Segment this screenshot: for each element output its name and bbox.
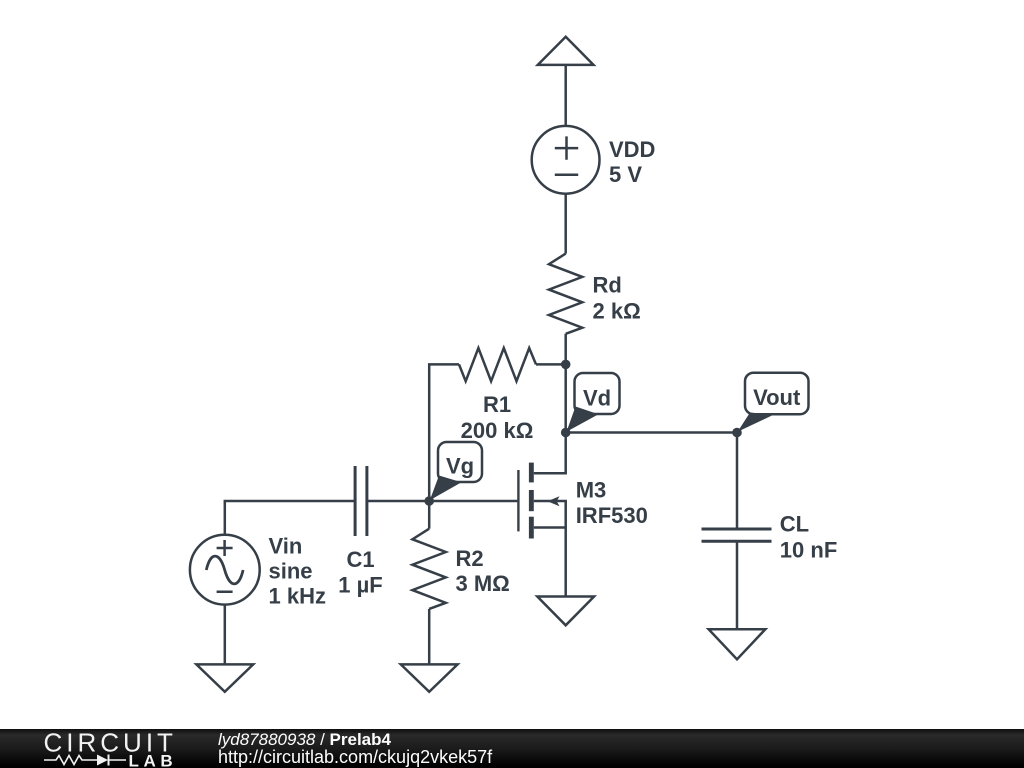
svg-text:Rd: Rd (593, 273, 622, 298)
MOSFET M3 body wire with source (534, 501, 566, 528)
svg-text:R2: R2 (456, 546, 484, 571)
footer url line (218, 748, 492, 766)
wire Vin top to C1 (225, 501, 355, 535)
logo resistor-diode squiggle (44, 755, 126, 766)
junction dot at node Vg (424, 496, 434, 506)
capacitor C1 left plate (354, 466, 357, 536)
resistor R2 zigzag (412, 529, 445, 609)
voltage source VDD circle (532, 126, 600, 194)
ground for M3 (537, 597, 594, 626)
node flag box Vout (745, 373, 809, 415)
wire VDD source to Rd (564, 194, 567, 254)
pointer of flag Vd (567, 407, 599, 432)
MOSFET M3 source channel bar (529, 517, 534, 539)
node flag box Vg (438, 442, 482, 482)
voltage source Vin circle (190, 535, 260, 605)
MOSFET M3 gate bar (517, 470, 519, 531)
svg-text:IRF530: IRF530 (576, 503, 648, 528)
footer title line (218, 731, 391, 748)
svg-text:Vin: Vin (269, 533, 303, 558)
wire CL to ground (736, 541, 739, 629)
capacitor CL bottom plate (702, 540, 772, 543)
MOSFET M3 body channel bar (529, 490, 534, 511)
pointer of flag Vg (430, 476, 462, 501)
node flag box Vd (575, 373, 620, 414)
svg-text:5 V: 5 V (609, 162, 642, 187)
wire drain of M3 (534, 433, 566, 474)
svg-text:Vd: Vd (583, 385, 611, 410)
svg-text:C1: C1 (346, 547, 374, 572)
capacitor CL top plate (702, 528, 772, 531)
Vin sine wave (206, 556, 243, 584)
svg-text:Vout: Vout (753, 385, 801, 410)
wire source of M3 to ground (564, 528, 567, 597)
Vin plus sign (217, 540, 233, 556)
footer bar (0, 729, 1024, 768)
pointer of flag Vout (738, 413, 774, 432)
svg-text:CL: CL (780, 512, 809, 537)
svg-text:sine: sine (269, 558, 313, 583)
MOSFET M3 gate wire (429, 500, 517, 503)
wire power flag to VDD source (564, 65, 567, 126)
capacitor C1 right plate (365, 466, 368, 536)
power flag VDD (up triangle) (538, 37, 594, 65)
svg-text:M3: M3 (576, 478, 607, 503)
MOSFET M3 drain channel bar (529, 463, 534, 483)
svg-text:Vg: Vg (446, 453, 474, 478)
junction dot at node Vout (732, 428, 742, 438)
CircuitLab logo wordmark (0, 729, 200, 768)
wire Rd to Vd node (through R1 junction) (564, 334, 567, 433)
ground for CL (709, 629, 766, 659)
wire node Vg to R2 (428, 501, 431, 529)
resistor R1 zigzag (459, 348, 536, 381)
svg-text:R1: R1 (483, 392, 511, 417)
resistor Rd zigzag (549, 254, 582, 334)
ground for Vin (196, 664, 253, 691)
junction dot at node Vd (561, 428, 571, 438)
Vin minus sign (217, 591, 233, 594)
VDD plus sign (555, 136, 578, 159)
svg-text:10 nF: 10 nF (780, 537, 837, 562)
svg-text:1 µF: 1 µF (338, 573, 382, 598)
junction dot at R1/rail (561, 360, 571, 370)
wire C1 to node Vg (367, 500, 429, 503)
wire node Vd to Vout (566, 431, 737, 434)
svg-text:3 MΩ: 3 MΩ (456, 571, 510, 596)
VDD minus sign (555, 174, 578, 177)
wire Vin bottom to ground (224, 605, 227, 665)
svg-text:LAB: LAB (129, 752, 178, 768)
wire R1 to rail (536, 363, 566, 366)
resistor R1 left vertical wire (429, 364, 459, 501)
wire node Vout to CL (736, 433, 739, 530)
MOSFET M3 body arrow (547, 496, 559, 506)
ground for R2 (401, 664, 458, 691)
svg-text:200 kΩ: 200 kΩ (461, 418, 534, 443)
svg-text:VDD: VDD (609, 137, 655, 162)
logo diode triangle (97, 755, 108, 766)
svg-text:1 kHz: 1 kHz (269, 583, 326, 608)
svg-text:2 kΩ: 2 kΩ (593, 298, 641, 323)
wire R2 to ground (428, 609, 431, 665)
